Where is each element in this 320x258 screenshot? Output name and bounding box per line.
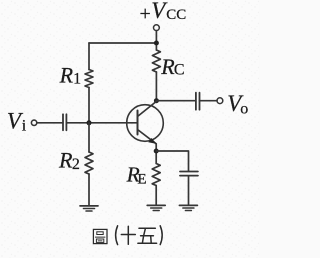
transistor Q1 base bar xyxy=(137,111,139,135)
resistor RC zigzag xyxy=(152,50,160,72)
svg-text:2: 2 xyxy=(72,156,80,173)
svg-text:CC: CC xyxy=(166,7,186,23)
svg-text:R: R xyxy=(58,147,73,172)
resistor R2 zigzag xyxy=(85,152,93,174)
ground under bypass capacitor xyxy=(179,204,197,206)
resistor RE zigzag xyxy=(152,164,160,186)
wire RE to ground xyxy=(155,186,157,206)
svg-text:C: C xyxy=(174,62,185,79)
wire R1 to base node xyxy=(88,88,90,123)
caption glyph ( xyxy=(116,226,118,245)
node base junction dot xyxy=(87,120,92,125)
capacitor bypass CE xyxy=(180,171,198,173)
ground under R2 xyxy=(80,205,98,207)
wire input capacitor to transistor base xyxy=(67,122,138,124)
node collector junction dot xyxy=(154,98,159,103)
wire bypass capacitor to ground xyxy=(188,176,190,205)
svg-text:+: + xyxy=(140,3,151,25)
transistor Q1 collector lead xyxy=(138,102,157,117)
svg-text:1: 1 xyxy=(73,71,81,88)
wire capacitor to Vo terminal xyxy=(200,100,218,102)
node junction dot at VCC rail xyxy=(154,41,159,46)
svg-text:i: i xyxy=(22,118,27,135)
caption glyph ) xyxy=(160,226,162,245)
transistor Q1 circle xyxy=(127,105,164,142)
capacitor output coupling xyxy=(195,93,197,110)
capacitor input coupling xyxy=(62,114,64,130)
transistor Q1 emitter arrowhead xyxy=(148,138,156,144)
output terminal Vo circle xyxy=(217,98,223,104)
svg-text:R: R xyxy=(59,63,74,88)
caption glyph 圖 xyxy=(93,229,107,243)
wire collector node to output capacitor xyxy=(156,100,195,102)
wire RC to collector node xyxy=(155,72,157,101)
wire base node to R2 xyxy=(88,123,90,152)
wire R2 to ground xyxy=(88,174,90,206)
wire Vi terminal to input capacitor xyxy=(37,122,63,124)
label +VCC xyxy=(7,0,248,188)
ground under RE xyxy=(147,204,165,206)
wire top rail from R1 to VCC branch xyxy=(89,42,156,44)
wire emitter to RE xyxy=(155,144,157,164)
wire emitter node to bypass branch xyxy=(156,151,188,171)
svg-text:E: E xyxy=(137,172,146,188)
wire R1 branch top lead xyxy=(88,43,90,70)
caption 圖(十五) xyxy=(93,226,162,245)
input terminal Vi circle xyxy=(31,120,36,125)
node emitter junction dot xyxy=(154,149,159,154)
svg-text:o: o xyxy=(240,100,248,117)
power terminal +VCC circle xyxy=(154,25,160,31)
transistor Q1 emitter lead xyxy=(138,130,157,144)
wire VCC terminal down to RC xyxy=(155,31,157,50)
caption glyph 十 xyxy=(121,226,135,244)
caption glyph 五 xyxy=(138,228,157,243)
resistor R1 zigzag xyxy=(85,70,93,88)
